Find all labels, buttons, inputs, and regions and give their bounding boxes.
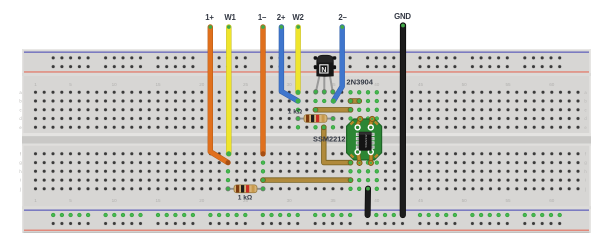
svg-text:j: j xyxy=(19,186,21,191)
svg-text:60: 60 xyxy=(549,82,555,87)
svg-text:5: 5 xyxy=(69,198,72,203)
top rail blue line xyxy=(24,51,589,53)
svg-text:c: c xyxy=(584,107,586,112)
svg-text:1: 1 xyxy=(34,198,37,203)
row letters xyxy=(19,90,587,191)
wire W1 (yellow) to col23 row f xyxy=(226,25,231,156)
svg-text:20: 20 xyxy=(199,82,205,87)
svg-text:25: 25 xyxy=(243,82,249,87)
resistor R1 1k (col31-col35 row d) xyxy=(296,115,335,123)
svg-text:20: 20 xyxy=(199,198,205,203)
svg-text:45: 45 xyxy=(418,82,424,87)
svg-text:2+: 2+ xyxy=(277,13,286,22)
svg-text:j: j xyxy=(584,186,586,191)
centre channel xyxy=(22,133,591,136)
top rail red line xyxy=(24,71,589,73)
svg-text:50: 50 xyxy=(462,198,468,203)
svg-text:40: 40 xyxy=(374,198,380,203)
jumper wire: short tan row b (col37 to col38) xyxy=(348,99,362,104)
svg-text:10: 10 xyxy=(112,198,118,203)
svg-text:50: 50 xyxy=(462,82,468,87)
svg-text:1: 1 xyxy=(34,82,37,87)
wire 2- (blue) to col35 row b xyxy=(331,25,344,103)
svg-text:10: 10 xyxy=(112,82,118,87)
svg-text:c: c xyxy=(19,107,21,112)
main area holes xyxy=(34,56,581,226)
svg-text:2–: 2– xyxy=(338,13,347,22)
black jumper col39 row j to bottom rail xyxy=(366,187,370,215)
connected (green) holes xyxy=(51,90,562,217)
svg-text:55: 55 xyxy=(505,82,511,87)
svg-text:SSM2212: SSM2212 xyxy=(364,134,368,148)
svg-text:15: 15 xyxy=(155,198,161,203)
svg-text:i: i xyxy=(585,178,586,183)
svg-text:SSM2212: SSM2212 xyxy=(313,134,345,143)
column numbers xyxy=(34,82,555,203)
wire 2+ (blue) to col31 row b xyxy=(280,25,301,103)
svg-text:W2: W2 xyxy=(292,13,304,22)
svg-text:2N3904: 2N3904 xyxy=(346,77,373,86)
wire 1- (orange) to col27 row f xyxy=(261,25,266,156)
svg-text:W1: W1 xyxy=(224,13,236,22)
svg-text:5: 5 xyxy=(69,82,72,87)
svg-text:30: 30 xyxy=(287,82,293,87)
jumper wire: long tan row i (col27 to col37) xyxy=(261,178,353,183)
bottom rail blue line xyxy=(24,209,589,211)
svg-text:1+: 1+ xyxy=(205,13,214,22)
bottom rail red line xyxy=(24,230,589,232)
svg-text:1 kΩ: 1 kΩ xyxy=(238,195,253,202)
transistor Q1 2N3904 xyxy=(314,55,337,94)
svg-text:35: 35 xyxy=(330,198,336,203)
wire W2 (yellow) to col31 row a xyxy=(296,25,301,95)
svg-text:15: 15 xyxy=(155,82,161,87)
svg-text:55: 55 xyxy=(505,198,511,203)
svg-text:1–: 1– xyxy=(258,13,267,22)
svg-text:N: N xyxy=(321,67,326,74)
jumper wire: long tan row c (col33 to col37) xyxy=(313,107,353,112)
resistor R2 1k (col23-col27 row j) xyxy=(226,185,265,193)
jumper wire: bent tan col34 row e to col37 row g xyxy=(321,125,353,165)
breadboard body xyxy=(22,49,591,233)
wire GND (black) to bottom rail xyxy=(401,24,405,215)
svg-text:GND: GND xyxy=(394,12,411,21)
SSM2212 adapter board xyxy=(347,116,382,165)
svg-text:60: 60 xyxy=(549,198,555,203)
svg-text:45: 45 xyxy=(418,198,424,203)
svg-text:i: i xyxy=(20,178,21,183)
svg-text:1 kΩ: 1 kΩ xyxy=(288,108,303,115)
svg-text:30: 30 xyxy=(287,198,293,203)
labels xyxy=(205,12,411,22)
svg-text:40: 40 xyxy=(374,82,380,87)
wire 1+ (orange) to col23 row g xyxy=(208,25,230,165)
